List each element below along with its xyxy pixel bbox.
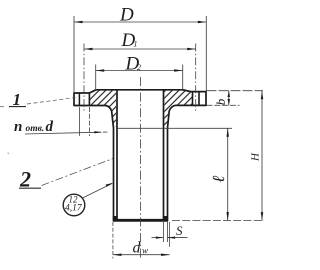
callout n otv d dimension line [25, 132, 102, 134]
svg-text:w: w [142, 245, 148, 255]
extension line D left [73, 16, 75, 92]
extension line dw right [169, 222, 171, 247]
dimension S arrows [152, 237, 164, 239]
bore right wall [163, 90, 165, 220]
dimension L [227, 128, 229, 220]
bolt hole left walls [78, 93, 80, 106]
faint left-edge specks [0, 106, 4, 107]
extension line D2 right [182, 65, 184, 90]
svg-text:отв.: отв. [26, 124, 45, 134]
dimension H [261, 91, 263, 221]
hatch left flange section [90, 90, 117, 127]
svg-text:d: d [133, 239, 142, 256]
dimension D2 [96, 70, 183, 72]
svg-text:ℓ: ℓ [209, 176, 228, 183]
bore left wall [116, 90, 118, 220]
svg-text:D: D [119, 5, 134, 26]
extension line H/L bottom [172, 220, 264, 222]
roughness circle [63, 194, 85, 216]
extension line D2 left [95, 65, 97, 91]
leader for label 2 [42, 159, 114, 186]
extension line b bottom [207, 104, 240, 106]
part centerline [139, 77, 141, 259]
extension line dw left [112, 222, 114, 259]
extension lines b / H top [207, 90, 264, 92]
dimension b [228, 91, 230, 106]
hatch right flange section [164, 90, 192, 127]
extension lines S [163, 222, 165, 242]
leader for label 1 [27, 98, 76, 105]
tube bottom edge [113, 219, 168, 222]
flange raised face top edge [90, 90, 191, 93]
svg-text:b: b [213, 98, 228, 105]
bolt hole centerline right [195, 44, 197, 113]
svg-text:1: 1 [13, 90, 22, 109]
svg-text:H: H [250, 152, 262, 162]
bolt hole centerline left [83, 44, 85, 113]
flange/tube part outline [74, 90, 206, 221]
bolt hole wall extension lines down [78, 107, 80, 136]
svg-text:S: S [176, 223, 183, 238]
svg-text:2: 2 [137, 63, 141, 72]
svg-text:d: d [46, 119, 54, 135]
svg-text:1: 1 [134, 40, 138, 49]
svg-text:n: n [14, 119, 22, 135]
dimension dw [113, 254, 170, 256]
svg-text:4,17: 4,17 [65, 204, 83, 214]
roughness leader [83, 184, 113, 199]
extension line D right [205, 16, 207, 91]
dimension D [74, 21, 206, 23]
bolt hole right walls [192, 92, 194, 106]
extension line L top [117, 127, 232, 129]
dimension D1 [84, 48, 196, 50]
